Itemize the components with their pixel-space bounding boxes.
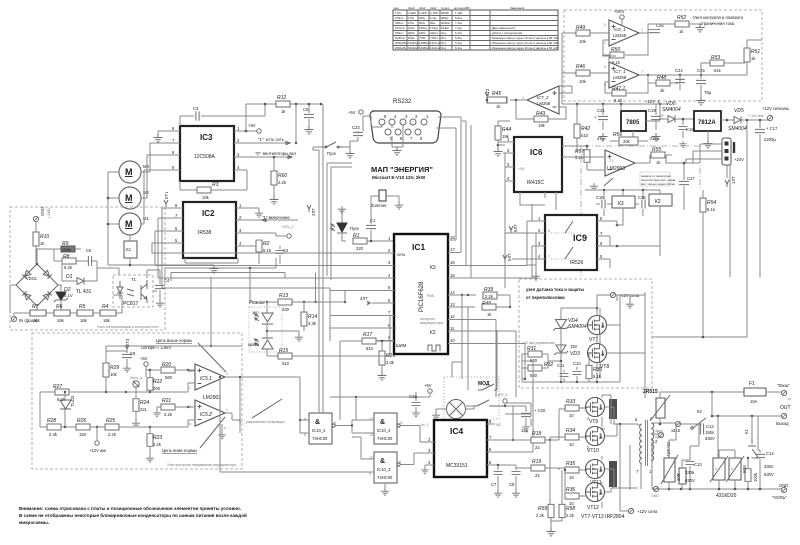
svg-text:VT7-VT12 IRF2804: VT7-VT12 IRF2804 <box>581 514 625 520</box>
svg-text:10: 10 <box>450 338 455 343</box>
svg-text:VT10: VT10 <box>587 448 599 454</box>
svg-text:LM2903: LM2903 <box>607 166 625 172</box>
resistor R34 10 <box>565 434 579 440</box>
svg-text:ШИМ: ШИМ <box>396 343 407 348</box>
capacitor C9 <box>126 351 128 365</box>
svg-text:К2: К2 <box>697 409 702 414</box>
IC6 lower wires <box>505 153 556 288</box>
svg-text:нс_1: нс_1 <box>421 423 429 427</box>
svg-text:VT9: VT9 <box>589 419 598 425</box>
svg-text:C23: C23 <box>352 125 360 130</box>
capacitor C24 <box>679 75 681 90</box>
svg-text:6: 6 <box>189 422 191 426</box>
svg-text:C3: C3 <box>193 106 199 111</box>
Zummer <box>379 190 386 201</box>
svg-text:R42: R42 <box>581 126 590 132</box>
relay K3 <box>612 196 635 208</box>
svg-text:R28: R28 <box>47 418 56 424</box>
svg-text:акт.нагр(кВт): акт.нагр(кВт) <box>454 6 470 10</box>
MOSFET VT8 <box>588 344 607 363</box>
zener D2 9.1V filled <box>56 292 66 300</box>
svg-text:R5: R5 <box>79 304 86 310</box>
svg-text:R6: R6 <box>56 304 63 310</box>
resistor R43 feedback <box>516 100 566 119</box>
svg-text:IC6: IC6 <box>530 148 543 157</box>
svg-text:M: M <box>125 193 133 203</box>
svg-text:715w: 715w <box>419 36 427 40</box>
svg-text:аккумулятора: аккумулятора <box>420 321 443 325</box>
svg-text:6ЛТ: 6ЛТ <box>513 224 518 232</box>
svg-text:R14: R14 <box>308 314 317 320</box>
ground <box>696 24 705 32</box>
drain bus VT11/VT12 <box>602 456 638 492</box>
resistor R19 22 <box>531 465 545 471</box>
svg-text:C5: C5 <box>86 248 92 253</box>
wires to 24V connector <box>672 144 700 163</box>
svg-text:9: 9 <box>369 472 371 476</box>
svg-text:К2: К2 <box>430 330 436 336</box>
svg-text:170v: 170v <box>408 21 415 25</box>
svg-text:221: 221 <box>140 407 148 412</box>
resistor R59 2.2k <box>548 504 554 517</box>
svg-text:1458kw: 1458kw <box>419 41 430 45</box>
svg-text:R48: R48 <box>657 75 666 81</box>
svg-text:7.2va: 7.2va <box>455 26 462 30</box>
svg-text:11: 11 <box>450 326 455 331</box>
capacitor C15 <box>596 203 612 205</box>
svg-text:R44: R44 <box>502 127 511 133</box>
resistor R55 1k <box>635 155 672 163</box>
wire IC6 to LM2903 <box>562 146 605 157</box>
switch Пуск <box>322 142 342 147</box>
resistor R2 5.1k <box>256 240 262 252</box>
capacitor C12 150n 630V <box>699 424 702 434</box>
svg-text:14: 14 <box>450 290 455 295</box>
op-amp IC7.1 LM258 <box>609 62 639 88</box>
svg-text:"Фаза": "Фаза" <box>777 383 790 388</box>
svg-text:Внимание: схема отрисована с п: Внимание: схема отрисована с платы и поз… <box>19 505 241 511</box>
relay K2 <box>649 194 672 206</box>
svg-text:6.2k: 6.2k <box>614 98 623 103</box>
svg-text:VDS1: VDS1 <box>26 276 38 281</box>
long vertical double bus 2LT <box>313 104 323 433</box>
bottom bus of sensor box <box>522 368 620 382</box>
resistor R15 510 <box>267 316 390 357</box>
svg-text:2k00wt5v: 2k00wt5v <box>395 41 407 45</box>
svg-text:10k: 10k <box>579 79 587 84</box>
svg-text:510: 510 <box>282 361 290 366</box>
svg-text:сеть: сеть <box>397 252 406 257</box>
svg-text:узел датчика тока и защиты: узел датчика тока и защиты <box>526 287 584 292</box>
GND terminal <box>33 216 38 221</box>
svg-text:10А: 10А <box>750 399 758 404</box>
svg-text:4ЛТ: 4ЛТ <box>360 296 368 301</box>
capacitor C21 47u <box>602 104 604 130</box>
ground at IC2 pin1 <box>258 208 260 210</box>
probe 1LT <box>725 180 729 187</box>
resistor R44 19k <box>495 126 501 140</box>
svg-text:13: 13 <box>369 433 373 437</box>
svg-text:630V: 630V <box>685 478 695 483</box>
svg-text:R58: R58 <box>566 506 575 512</box>
top wire C9 R29 <box>106 346 242 351</box>
svg-text:330n: 330n <box>764 464 774 469</box>
regulator 7812A <box>694 111 721 131</box>
svg-text:+5V0: +5V0 <box>614 9 625 14</box>
svg-text:2.4k: 2.4k <box>49 432 58 437</box>
svg-text:Пуск: Пуск <box>327 151 336 156</box>
op-amp IC7.2 LM258 (left pointing) <box>527 86 559 114</box>
resistor R38 100k <box>745 469 751 482</box>
svg-text:R29: R29 <box>110 365 119 371</box>
resistor R42 510 <box>574 124 580 138</box>
resistor R10 <box>33 232 39 246</box>
svg-text:+24V: +24V <box>734 157 744 162</box>
svg-text:К2: К2 <box>655 199 661 205</box>
svg-text:+12V сигналы: +12V сигналы <box>762 106 789 111</box>
svg-text:19k: 19k <box>538 123 546 128</box>
capacitor C26 <box>647 33 649 36</box>
svg-text:Цепь выше нормы: Цепь выше нормы <box>156 338 192 343</box>
svg-text:IC7_2: IC7_2 <box>537 95 549 100</box>
TL431 <box>60 400 71 409</box>
svg-text:150n: 150n <box>705 430 715 435</box>
svg-text:IR415C: IR415C <box>527 180 544 186</box>
svg-text:R15: R15 <box>279 348 288 354</box>
svg-text:В схеме не отображены некоторы: В схеме не отображены некоторые блокиров… <box>19 512 247 518</box>
svg-text:вых: вых <box>394 6 399 10</box>
resistor R23 2.2k <box>147 434 153 447</box>
ground at pin8 <box>157 131 159 134</box>
svg-text:КТ1: КТ1 <box>164 191 169 199</box>
svg-text:2: 2 <box>189 386 191 390</box>
source wires down <box>588 417 602 508</box>
probe 6LT <box>509 226 513 233</box>
resistor R8 6.2k <box>54 249 84 261</box>
svg-text:100k: 100k <box>753 472 758 482</box>
svg-text:1452kw: 1452kw <box>408 41 419 45</box>
svg-text:IC3: IC3 <box>200 133 213 142</box>
svg-text:PIC16F628: PIC16F628 <box>419 281 425 312</box>
МОД dotted box <box>444 377 499 419</box>
svg-text:работа с повторителем: работа с повторителем <box>492 31 522 35</box>
svg-text:2: 2 <box>604 41 606 45</box>
svg-text:2ЛТ: 2ЛТ <box>311 208 316 216</box>
top wire of relays <box>585 190 660 199</box>
svg-text:R26: R26 <box>77 418 86 424</box>
svg-text:красн: красн <box>248 342 260 347</box>
resistor R21 2.2k <box>161 404 175 410</box>
svg-text:560: 560 <box>530 373 538 378</box>
svg-text:2.1kv: 2.1kv <box>430 16 437 20</box>
resistor R53 <box>701 62 745 64</box>
varistor 1 <box>713 458 725 480</box>
svg-text:10k: 10k <box>579 39 587 44</box>
svg-text:R20: R20 <box>162 362 171 368</box>
outputs <box>225 377 240 433</box>
svg-text:R52: R52 <box>677 15 686 21</box>
zener VD3 15V <box>554 345 568 355</box>
drain bus VT9/VT10 <box>609 399 617 419</box>
svg-text:IC5.2: IC5.2 <box>200 412 212 418</box>
svg-text:TL431: TL431 <box>70 394 75 407</box>
svg-text:Замечания: Замечания <box>510 6 525 10</box>
probe 5LT <box>503 255 507 262</box>
resistor R54 5.1k <box>700 198 706 212</box>
svg-text:МАП "ЭНЕРГИЯ": МАП "ЭНЕРГИЯ" <box>371 165 433 174</box>
svg-text:D1: D1 <box>66 274 73 280</box>
LM2903 comparator <box>605 150 635 176</box>
svg-text:Изменьше смотри через 10 сек и: Изменьше смотри через 10 сек и увеличь в… <box>492 46 559 50</box>
svg-text:Режим: Режим <box>249 300 265 306</box>
svg-text:&: & <box>380 419 385 426</box>
svg-text:+5V: +5V <box>248 123 256 128</box>
IC4 MC33151 <box>434 420 487 477</box>
motor M2 <box>119 187 141 209</box>
svg-text:2.2k: 2.2k <box>566 513 575 518</box>
op-amp IC8.1 LM258 <box>609 20 639 46</box>
svg-text:630V: 630V <box>764 472 774 477</box>
svg-text:120wv: 120wv <box>419 26 428 30</box>
svg-text:6.4va: 6.4va <box>455 46 462 50</box>
svg-text:SM4004: SM4004 <box>728 126 747 132</box>
svg-text:К3: К3 <box>430 265 436 271</box>
svg-text:К3: К3 <box>618 201 624 207</box>
table cell text <box>394 6 559 50</box>
svg-text:16k: 16k <box>103 318 111 323</box>
right side wire to 2R515 <box>607 292 645 398</box>
resistor R29 10k <box>103 363 109 377</box>
svg-text:1: 1 <box>226 372 228 376</box>
resistor R47.1 feedback <box>605 75 648 93</box>
+12V акк term <box>96 427 98 440</box>
svg-text:C13: C13 <box>694 462 702 467</box>
svg-text:R60: R60 <box>278 173 287 179</box>
ground big <box>210 265 219 273</box>
resistor R3 10k <box>180 170 247 190</box>
svg-text:IC10_4: IC10_4 <box>377 428 391 433</box>
svg-text:909k: 909k <box>63 247 72 252</box>
resistor R58 2.2k <box>559 504 565 517</box>
IC9 IR526 <box>545 215 597 270</box>
dashed box: узел датчика тока и защиты от переполюсовки <box>519 279 652 388</box>
IC3 pins left <box>144 131 180 170</box>
svg-text:3k45wt: 3k45wt <box>441 21 450 25</box>
resistor R22 <box>147 378 153 391</box>
svg-text:+12V акк: +12V акк <box>89 448 106 453</box>
svg-text:Uвх2: Uвх2 <box>430 6 437 10</box>
svg-text:12: 12 <box>450 314 455 319</box>
svg-text:5402kw: 5402kw <box>408 46 419 50</box>
varistor 43Ж431 <box>664 458 675 482</box>
svg-text:20R: 20R <box>676 473 681 481</box>
capacitor C5 <box>88 256 91 266</box>
resistor R35 10 <box>565 467 579 473</box>
svg-text:5408kw: 5408kw <box>419 46 430 50</box>
capacitor C8 <box>515 465 517 482</box>
svg-text:R12: R12 <box>277 95 286 101</box>
resistor R14 3.3k <box>301 312 307 326</box>
wire from IC1 pin10 into box <box>522 378 525 380</box>
svg-text:R38: R38 <box>742 465 747 473</box>
svg-text:22: 22 <box>535 445 540 450</box>
svg-text:2000w5v: 2000w5v <box>395 46 407 50</box>
svg-text:Microart E-V10 12V, 2kW: Microart E-V10 12V, 2kW <box>372 175 426 180</box>
svg-text:R7: R7 <box>32 304 39 310</box>
capacitor C2 <box>279 246 281 264</box>
svg-text:12C508A: 12C508A <box>194 154 216 160</box>
svg-text:17: 17 <box>450 247 455 252</box>
svg-text:10k: 10k <box>110 372 118 377</box>
svg-text:R53: R53 <box>711 55 720 61</box>
relay K1 <box>124 241 137 258</box>
svg-text:4: 4 <box>224 426 226 430</box>
capacitor C20 <box>505 414 531 416</box>
capacitor C13 330n 630V <box>689 446 691 489</box>
svg-text:1: 1 <box>522 96 524 100</box>
svg-text:R23: R23 <box>153 435 162 441</box>
motor right wires <box>141 143 150 224</box>
svg-text:1: 1 <box>641 28 643 32</box>
svg-text:260v: 260v <box>419 16 426 20</box>
svg-text:PC817: PC817 <box>123 301 139 307</box>
svg-text:R17: R17 <box>363 332 372 338</box>
svg-text:431КD20: 431КD20 <box>716 493 737 499</box>
svg-text:вкл. только через 10 сек: вкл. только через 10 сек <box>641 182 676 186</box>
svg-text:C19: C19 <box>648 108 656 113</box>
svg-text:C2: C2 <box>283 248 289 253</box>
svg-text:+12V_2: +12V_2 <box>645 99 660 104</box>
wires below IC2 <box>165 258 316 346</box>
svg-text:R32: R32 <box>544 362 553 368</box>
svg-text:74HC00: 74HC00 <box>312 436 328 441</box>
svg-text:K1: K1 <box>126 247 132 252</box>
svg-text:Zummer: Zummer <box>371 203 387 208</box>
svg-text:270mv: 270mv <box>395 16 404 20</box>
svg-text:10k: 10k <box>202 195 210 200</box>
IC1 pins right <box>448 240 536 344</box>
svg-text:70µ: 70µ <box>704 90 712 95</box>
svg-text:2R515: 2R515 <box>643 389 658 395</box>
MOSFET VT7 <box>588 316 607 335</box>
resistor R48 <box>656 80 670 86</box>
wire nested corners <box>327 163 352 280</box>
switch contacts <box>478 384 497 390</box>
capacitor C18 <box>682 119 684 138</box>
svg-text:+5V: +5V <box>518 167 525 171</box>
svg-text:OUT: OUT <box>780 405 791 411</box>
IC9 internal contacts <box>551 233 575 259</box>
svg-text:T1: T1 <box>131 277 137 282</box>
svg-text:"1"- есть сеть: "1"- есть сеть <box>258 137 285 142</box>
svg-text:R8: R8 <box>63 254 70 260</box>
svg-text:Изменьше смотри через 10 сек и: Изменьше смотри через 10 сек и увеличь в… <box>492 41 559 45</box>
svg-text:GND: GND <box>651 494 659 498</box>
svg-text:IR538: IR538 <box>198 230 212 236</box>
IC2 pins right <box>236 208 298 246</box>
MOSFET VT12 <box>586 483 605 502</box>
long wires right side <box>703 120 760 337</box>
svg-text:VD5: VD5 <box>734 108 744 114</box>
capacitor C4 <box>155 285 165 288</box>
svg-text:16: 16 <box>450 260 455 265</box>
svg-text:R35: R35 <box>566 461 575 467</box>
svg-text:R27: R27 <box>53 384 62 390</box>
svg-text:6.8va: 6.8va <box>455 36 462 40</box>
svg-text:C16: C16 <box>638 195 646 200</box>
MOSFET VT10 <box>586 427 605 446</box>
MOSFET VT9 <box>586 398 605 417</box>
GND terminal bottom left <box>653 486 658 491</box>
svg-text:3mv: 3mv <box>441 46 447 50</box>
resistor R25 2.2k <box>105 424 119 430</box>
opamp input wires <box>150 370 195 392</box>
svg-text:(-АКБ): (-АКБ) <box>47 208 51 218</box>
svg-text:7.3va: 7.3va <box>455 21 462 25</box>
capacitor C17 2200u <box>759 120 761 150</box>
svg-text:1ч: 1ч <box>787 397 791 401</box>
svg-text:пз доп: пз доп <box>441 6 450 10</box>
resistor R18 22 <box>531 437 545 443</box>
probe 2LT <box>307 205 311 212</box>
svg-text:Uвх0: Uвх0 <box>408 6 415 10</box>
resistor R33 10 <box>565 405 579 411</box>
svg-text:3,3k: 3,3k <box>308 321 317 326</box>
capacitor C19 220u <box>651 104 660 130</box>
svg-text:R18: R18 <box>532 431 541 437</box>
svg-text:2.2k: 2.2k <box>108 432 117 437</box>
svg-text:+ C20: + C20 <box>534 408 546 413</box>
svg-text:"+12v акк": "+12v акк" <box>748 114 765 118</box>
svg-text:C6: C6 <box>303 107 309 112</box>
IC3 12C508A <box>180 126 234 181</box>
svg-text:C27: C27 <box>687 176 695 181</box>
svg-text:&: & <box>380 458 385 465</box>
svg-text:GND: GND <box>40 207 45 216</box>
svg-text:242mv: 242mv <box>430 31 439 35</box>
svg-text:SM4004: SM4004 <box>568 324 587 330</box>
zener VD4 SM4004 <box>553 320 568 331</box>
resistor R32 560 <box>528 365 542 371</box>
svg-text:10: 10 <box>569 442 574 447</box>
IC9 pins <box>532 221 545 259</box>
svg-text:u: u <box>731 467 733 471</box>
fuse F1 <box>744 388 766 396</box>
svg-text:74HC00: 74HC00 <box>377 475 393 480</box>
resistor R28 2.4k <box>47 424 61 430</box>
resistor R17 510 <box>362 338 376 344</box>
svg-text:+5V: +5V <box>348 110 356 115</box>
svg-text:Цепь ниже нормы: Цепь ниже нормы <box>162 448 197 453</box>
svg-text:R10: R10 <box>40 234 49 240</box>
dashed box: узел контроля напряжения аккумулятора <box>32 333 242 469</box>
motor M3 <box>119 161 141 183</box>
svg-text:10: 10 <box>569 413 574 418</box>
resistor R45 <box>487 99 527 101</box>
op-amp IC5.2 <box>195 400 225 426</box>
capacitor C25 70u <box>700 75 702 97</box>
svg-text:3: 3 <box>604 23 606 27</box>
svg-text:SM4004: SM4004 <box>662 107 681 113</box>
svg-text:13: 13 <box>450 302 455 307</box>
capacitor C27 <box>683 163 685 210</box>
bottom GND bus <box>652 488 782 490</box>
svg-text:1312mv: 1312mv <box>430 41 441 45</box>
svg-text:C4: C4 <box>164 278 170 283</box>
svg-text:4.3kW: 4.3kW <box>408 11 416 15</box>
diode VD5 SM4004 <box>734 117 741 124</box>
svg-text:IN (фаза): IN (фаза) <box>19 318 38 323</box>
